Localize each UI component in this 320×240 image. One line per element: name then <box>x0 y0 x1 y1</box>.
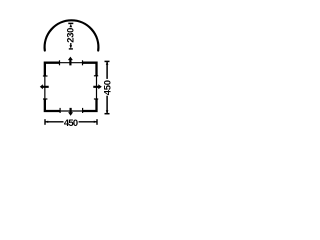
dimension 230: up arrowhead <box>70 24 73 28</box>
door opening top (thin) <box>60 62 83 64</box>
dimension 450 bottom: left arrowhead <box>45 121 48 123</box>
dimension 450 bottom: left extension tick <box>44 119 46 125</box>
dimension 450 right: upper line segment <box>106 61 108 79</box>
door tick right-top <box>94 75 98 77</box>
dimension 450 bottom: right line segment <box>79 121 97 123</box>
dimension 450 right: bottom arrowhead <box>106 110 109 113</box>
dimension 450 right: lower line segment <box>106 96 108 114</box>
dimension 230: down arrowhead <box>70 45 73 49</box>
door tick top-left <box>59 60 61 65</box>
dimension 230: top tick bar <box>68 22 73 24</box>
dimension 230: lower line segment <box>70 43 72 47</box>
tent floor wall top-right corner (thick) <box>83 63 97 76</box>
door tick bottom-right <box>82 108 84 113</box>
svg-text:450: 450 <box>64 117 78 128</box>
door opening left (thin) <box>44 76 46 99</box>
dimension 230: bottom tick bar <box>69 48 73 50</box>
dimension 450 bottom: right arrowhead <box>94 121 97 123</box>
door arrow left (bold, pointing left/outward) <box>40 84 49 89</box>
svg-text:450: 450 <box>102 80 113 95</box>
door arrow right (bold, pointing right/outward) <box>93 84 102 89</box>
tent floor wall bottom-right corner (thick) <box>83 99 97 111</box>
tent floor wall bottom-left corner (thick) <box>45 99 60 111</box>
dimension 450 right: top extension tick <box>105 60 110 62</box>
dimension 450 bottom: right extension tick <box>96 119 98 125</box>
dimension 450 right: bottom extension tick <box>105 113 110 115</box>
svg-text:230: 230 <box>64 28 75 43</box>
tent floor wall top-left corner (thick) <box>45 63 60 76</box>
door opening bottom (thin) <box>60 110 83 112</box>
dimension 450 bottom: left line segment <box>45 121 64 123</box>
door tick left-top <box>43 75 48 77</box>
dimension 450 right: top arrowhead <box>106 62 109 65</box>
door arrow top (bold, pointing up/outward) <box>68 57 73 66</box>
door arrow bottom (bold, pointing down/outward) <box>68 108 73 116</box>
door tick top-right <box>82 60 84 65</box>
door opening right (thin) <box>96 76 98 99</box>
door tick left-bottom <box>43 98 47 100</box>
door tick bottom-left <box>59 108 61 113</box>
dome arc (side profile of tent) <box>45 20 99 50</box>
door tick right-bottom <box>94 98 98 100</box>
